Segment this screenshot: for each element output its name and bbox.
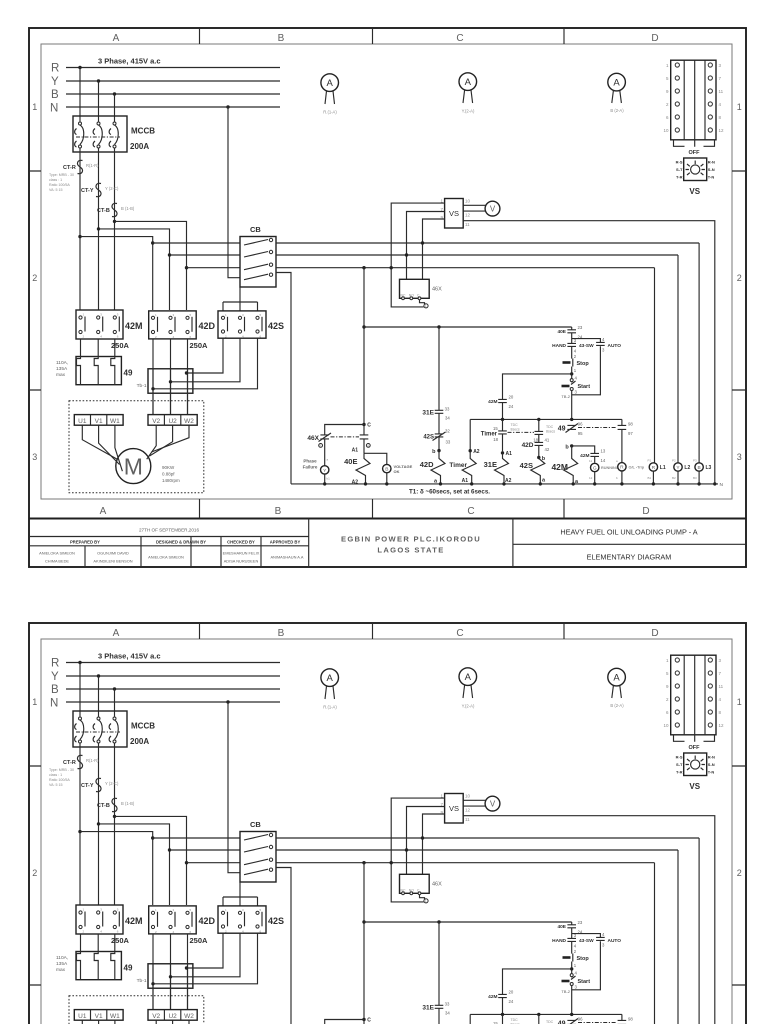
wire 31E chain drop: [438, 327, 440, 451]
wire control B drop: [363, 268, 365, 425]
svg-text:42M: 42M: [488, 399, 497, 405]
motor M: [116, 449, 151, 484]
wire main control vertical upper: [571, 327, 573, 419]
wire control top feed: [364, 326, 572, 328]
svg-text:M: M: [124, 454, 143, 480]
svg-text:40E: 40E: [344, 457, 357, 466]
wire mid rail: [470, 418, 622, 420]
svg-text:AKINDILENI BENSON: AKINDILENI BENSON: [93, 559, 132, 564]
46X bottom terminals: [402, 297, 405, 300]
svg-text:42S: 42S: [520, 461, 533, 470]
wire R phase drop: [79, 68, 81, 122]
svg-text:2: 2: [737, 273, 742, 283]
svg-text:EGBIN POWER PLC.IKORODU: EGBIN POWER PLC.IKORODU: [341, 535, 481, 544]
contact 46X NO: [360, 435, 369, 439]
wire 46X contact tops: [325, 425, 364, 435]
terminal block TB top right: [671, 60, 716, 140]
svg-text:31E: 31E: [484, 460, 497, 469]
svg-text:R: R: [620, 465, 624, 471]
svg-text:A: A: [613, 78, 620, 89]
TB pin numbers right: [719, 63, 725, 133]
contact 49 trip 96-95: [566, 424, 579, 433]
svg-text:1: 1: [425, 304, 427, 308]
wire B crossover to 42D: [115, 221, 187, 310]
node rail 31E: [501, 418, 504, 421]
page frame outer border: [29, 28, 746, 567]
node control feed on line3: [362, 266, 365, 269]
svg-text:Y.(2-A): Y.(2-A): [462, 109, 475, 114]
svg-text:97: 97: [628, 431, 633, 436]
terminal strip V2 U2 W2: [148, 415, 197, 426]
wire B below MCCB: [114, 148, 116, 310]
svg-text:S-N: S-N: [708, 167, 715, 172]
drawing area inner border: [41, 44, 732, 499]
wire B phase drop: [114, 94, 116, 122]
node TB1 a: [185, 371, 188, 374]
svg-text:A1: A1: [506, 451, 513, 457]
TB pin numbers left: [663, 63, 669, 133]
svg-text:V2: V2: [152, 418, 160, 425]
svg-text:13: 13: [601, 449, 606, 454]
svg-text:27TH OF SEPTEMBER,2016: 27TH OF SEPTEMBER,2016: [139, 528, 199, 533]
svg-text:11: 11: [589, 459, 592, 463]
node rail 42S: [537, 418, 540, 421]
ammeter A1: [321, 74, 339, 92]
svg-text:R.(1-A): R.(1-A): [323, 110, 337, 115]
lamp L2: [674, 463, 682, 471]
wire lamp feed drop B: [654, 268, 656, 463]
node CB feed Y: [168, 253, 171, 256]
terminal circle 4: [366, 444, 370, 448]
row margin ticks right: [732, 171, 746, 390]
wire 42D pole2 drop: [170, 339, 172, 415]
CB blade 3: [244, 264, 268, 270]
svg-text:23: 23: [578, 325, 583, 330]
svg-text:Y (2-C): Y (2-C): [105, 186, 119, 191]
svg-text:Phase: Phase: [303, 459, 317, 464]
svg-text:96: 96: [578, 422, 583, 427]
title block dividers: [309, 519, 513, 568]
svg-text:AUTO: AUTO: [608, 343, 622, 349]
svg-text:R: R: [51, 63, 59, 75]
svg-text:0.88pf: 0.88pf: [162, 472, 175, 477]
MCCB pole 1: [79, 122, 82, 125]
42D drops through TB-1: [153, 369, 188, 415]
contactor 42D box: [149, 311, 197, 339]
svg-text:ANIMASHAUN A.A: ANIMASHAUN A.A: [270, 555, 303, 560]
svg-text:3: 3: [737, 452, 742, 462]
svg-text:class : 1: class : 1: [49, 178, 62, 182]
svg-text:b1: b1: [327, 477, 331, 481]
wire 46X NC to lamp: [324, 439, 326, 466]
svg-text:3: 3: [32, 452, 37, 462]
svg-text:R-N: R-N: [708, 160, 715, 165]
svg-text:ANIELOKA SIMEON: ANIELOKA SIMEON: [39, 551, 75, 556]
CB output N to control drop: [276, 273, 291, 484]
svg-text:46X: 46X: [432, 287, 442, 293]
node pin7 on line2: [405, 253, 408, 256]
svg-text:max: max: [56, 373, 66, 378]
svg-text:L3: L3: [706, 465, 712, 471]
svg-text:ELEMENTARY DIAGRAM: ELEMENTARY DIAGRAM: [587, 553, 672, 562]
svg-text:12: 12: [719, 128, 725, 133]
svg-text:42S: 42S: [268, 321, 284, 331]
42S pole 2: [238, 316, 241, 319]
mechanical link 49: [578, 427, 616, 429]
svg-text:A1: A1: [462, 478, 469, 484]
node CB feed B: [185, 266, 188, 269]
svg-text:42S: 42S: [423, 435, 434, 441]
svg-text:49: 49: [124, 369, 133, 378]
svg-text:B: B: [278, 33, 285, 44]
svg-text:OGUNJIMI DAVID: OGUNJIMI DAVID: [97, 551, 129, 556]
svg-text:2: 2: [32, 273, 37, 283]
svg-text:250A: 250A: [111, 341, 130, 350]
node Y tap: [97, 79, 100, 82]
42D pole 1: [151, 316, 154, 319]
wire CB input 3: [187, 267, 241, 269]
svg-text:B2: B2: [672, 476, 676, 480]
svg-text:VS: VS: [449, 209, 459, 218]
svg-text:A: A: [100, 506, 107, 517]
42M pole 2: [97, 316, 100, 319]
svg-text:B1: B1: [648, 476, 652, 480]
svg-text:200A: 200A: [130, 142, 149, 151]
ammeter A2: [459, 73, 477, 91]
node A1 31E: [501, 451, 504, 454]
TB terminals left column: [675, 63, 679, 132]
svg-text:4: 4: [367, 444, 369, 448]
svg-text:C: C: [467, 506, 474, 517]
svg-text:T-R: T-R: [676, 175, 683, 180]
svg-text:10: 10: [465, 199, 471, 204]
svg-text:10: 10: [663, 128, 669, 133]
wire bottom N rail: [291, 483, 718, 485]
contact 42M aux 13-14: [572, 446, 595, 463]
CB output line 2: [276, 254, 678, 256]
contact HAND 43-SW: [567, 343, 576, 346]
wire lamp feed drop R: [698, 243, 700, 463]
svg-text:42M: 42M: [125, 321, 143, 331]
svg-text:W1: W1: [110, 418, 120, 425]
svg-text:8secs: 8secs: [511, 428, 520, 432]
node C: [362, 423, 365, 426]
42M pole 1: [79, 316, 82, 319]
node TB1 b: [169, 380, 172, 383]
wire CB input 1: [153, 242, 240, 244]
MCCB pole 2: [97, 122, 100, 125]
contactor 42M box: [76, 310, 123, 339]
lamp VOLTAGE OK: [383, 464, 391, 472]
motor lead V1: [99, 425, 120, 464]
svg-text:ANIELOKA SIMEON: ANIELOKA SIMEON: [148, 555, 184, 560]
svg-text:12: 12: [465, 213, 471, 218]
terminal circle 5: [319, 444, 323, 448]
mechanical link 46X: [331, 436, 360, 438]
svg-text:40E: 40E: [557, 329, 566, 335]
svg-text:90KW: 90KW: [162, 465, 175, 470]
svg-text:VA: 5 15: VA: 5 15: [49, 188, 63, 192]
42M pole 3: [113, 316, 116, 319]
svg-text:B (1-B): B (1-B): [121, 206, 135, 211]
svg-text:33: 33: [445, 407, 450, 412]
svg-text:41: 41: [545, 438, 550, 443]
svg-text:OFF: OFF: [689, 150, 701, 156]
svg-text:B: B: [51, 89, 59, 101]
42S pole 3: [256, 316, 259, 319]
svg-text:14: 14: [601, 458, 606, 463]
svg-text:TB-2: TB-2: [561, 394, 570, 399]
MCCB mechanical link: [76, 136, 120, 138]
svg-text:MCCB: MCCB: [131, 127, 155, 136]
bottom label band line: [29, 518, 746, 520]
svg-text:11: 11: [719, 89, 724, 94]
svg-text:31E: 31E: [422, 410, 434, 417]
svg-text:P3: P3: [693, 459, 697, 463]
wire 42D pole1 drop: [152, 339, 154, 415]
svg-text:CHIMA BEDE: CHIMA BEDE: [45, 559, 69, 564]
svg-text:V1: V1: [95, 418, 103, 425]
motor lead W2: [152, 425, 190, 452]
wire 42D pole3 drop: [187, 339, 189, 415]
node 31E chain tap: [437, 325, 440, 328]
svg-text:R-S: R-S: [676, 160, 683, 165]
svg-text:S-T: S-T: [676, 167, 683, 172]
contact 40E 23-24: [567, 330, 576, 333]
node seal junction: [570, 372, 573, 375]
pushbutton Stop: [563, 361, 571, 364]
svg-text:A2: A2: [352, 480, 359, 486]
42D pole 2: [169, 316, 172, 319]
wire CB bottom to 42S bus: [223, 287, 258, 311]
svg-text:CT-R: CT-R: [63, 165, 76, 171]
svg-text:L2: L2: [684, 465, 690, 471]
node B crossover: [113, 220, 116, 223]
motor lead V2: [147, 425, 157, 459]
svg-text:N: N: [720, 482, 724, 488]
svg-text:32: 32: [445, 429, 450, 434]
svg-text:T1: δ ~60secs, set at 6secs.: T1: δ ~60secs, set at 6secs.: [409, 489, 490, 496]
svg-text:A: A: [113, 33, 120, 44]
MCCB pole 3: [113, 122, 116, 125]
svg-text:Start: Start: [578, 384, 591, 390]
svg-text:A: A: [327, 78, 334, 89]
svg-text:TDC: TDC: [546, 425, 554, 429]
wire Y below MCCB: [98, 148, 100, 310]
wire timer coil branch: [469, 419, 471, 450]
svg-text:B: B: [697, 465, 700, 471]
wire CB input 2: [170, 254, 241, 256]
mechanical link timer: [508, 431, 535, 433]
wire 46X NO to 40E: [363, 439, 365, 453]
svg-text:OK: OK: [394, 469, 400, 474]
svg-text:Failure: Failure: [303, 465, 318, 470]
contact 49 trip 98-97: [618, 419, 627, 462]
svg-text:A2: A2: [505, 478, 512, 484]
svg-text:T-N: T-N: [708, 175, 715, 180]
svg-text:5: 5: [320, 444, 322, 448]
svg-text:135A: 135A: [56, 366, 68, 372]
svg-text:N: N: [50, 103, 58, 115]
wire R below MCCB: [79, 148, 81, 310]
svg-text:VS: VS: [689, 187, 700, 196]
svg-text:98: 98: [628, 422, 633, 427]
CB blade 4: [244, 274, 268, 280]
TB terminals right column: [708, 63, 712, 132]
node rail 42M: [570, 418, 573, 421]
svg-text:20: 20: [509, 395, 514, 400]
wire R crossover to 42D: [80, 237, 153, 310]
lamp O/L Trip: [618, 463, 626, 471]
svg-text:15: 15: [493, 426, 498, 431]
svg-text:B (2-A): B (2-A): [610, 108, 624, 113]
node Y crossover: [97, 227, 100, 230]
svg-text:Ratio 100/5A: Ratio 100/5A: [49, 183, 70, 187]
svg-text:CT-Y: CT-Y: [81, 188, 94, 194]
svg-text:EMESHARUN FELIX: EMESHARUN FELIX: [223, 551, 260, 556]
wire seal branch: [503, 374, 572, 420]
wire 42S pole1 to TB-1: [187, 338, 224, 373]
contact 42S NC 32-33: [433, 432, 446, 441]
svg-text:W2: W2: [184, 418, 194, 425]
svg-text:A2: A2: [473, 449, 480, 455]
svg-text:ADISA NURUDEEN: ADISA NURUDEEN: [224, 559, 259, 564]
title block header cells: [85, 537, 261, 568]
svg-text:G: G: [593, 465, 597, 471]
motor lead W1: [115, 425, 123, 471]
CB blade 1: [244, 240, 268, 246]
node N tap: [226, 105, 229, 108]
svg-text:C: C: [367, 423, 371, 429]
svg-text:HAND: HAND: [552, 343, 566, 349]
svg-text:C: C: [456, 33, 463, 44]
wire 42S pole2 to TB-1: [171, 338, 241, 382]
svg-text:D: D: [642, 506, 649, 517]
relay 46X box: [400, 279, 430, 298]
svg-text:LAGOS STATE: LAGOS STATE: [377, 546, 444, 555]
node B tap: [113, 92, 116, 95]
contact AUTO branch: [572, 339, 601, 395]
svg-text:1480rpm: 1480rpm: [162, 478, 180, 483]
svg-text:33: 33: [446, 440, 451, 445]
svg-text:L1: L1: [660, 465, 666, 471]
motor terminal box dotted: [69, 401, 204, 493]
motor lead U2: [150, 425, 173, 456]
svg-text:8secs: 8secs: [546, 430, 555, 434]
svg-text:P2: P2: [672, 459, 676, 463]
svg-text:3 Phase, 415V a.c: 3 Phase, 415V a.c: [98, 57, 161, 66]
svg-text:U2: U2: [168, 418, 177, 425]
node b 42M: [570, 444, 573, 447]
svg-text:24: 24: [509, 404, 514, 409]
terminal strip U1 V1 W1: [74, 415, 123, 426]
TB bottom hooks: [674, 140, 715, 147]
49 element 3: [111, 339, 115, 385]
pushbutton Start: [570, 379, 573, 382]
overload relay 49 box: [76, 357, 121, 385]
svg-text:43-SW: 43-SW: [579, 343, 594, 349]
svg-text:42D: 42D: [199, 321, 216, 331]
svg-text:1: 1: [32, 102, 37, 112]
node CB feed R: [151, 241, 154, 244]
contact TDC 42D chain: [538, 419, 540, 457]
node feed branch: [362, 325, 365, 328]
svg-text:HEAVY FUEL OIL UNLOADING PUMP: HEAVY FUEL OIL UNLOADING PUMP - A: [560, 528, 697, 537]
42D pole 3: [186, 316, 189, 319]
node R crossover: [78, 235, 81, 238]
lamp L3: [695, 463, 703, 471]
node A2 timer: [469, 449, 472, 452]
contact 31E 33-34: [435, 410, 444, 413]
node b 42S: [537, 456, 540, 459]
svg-text:12: 12: [589, 476, 593, 480]
46X output terminal: [424, 304, 428, 308]
svg-text:110A,: 110A,: [56, 360, 68, 366]
svg-text:A: A: [465, 77, 472, 88]
svg-text:42D: 42D: [420, 460, 434, 469]
contact 42M 20-24 seal: [498, 399, 507, 402]
svg-text:V: V: [490, 205, 496, 214]
svg-text:A1: A1: [352, 448, 359, 454]
voltmeter selector VS box: [445, 199, 464, 229]
node R tap: [78, 66, 81, 69]
contactor 42S box: [218, 311, 266, 338]
svg-text:Stop: Stop: [577, 361, 590, 367]
svg-text:42: 42: [545, 447, 550, 452]
CB blade 2: [244, 252, 268, 258]
svg-text:CT-B: CT-B: [97, 208, 110, 214]
svg-text:CHECKED BY: CHECKED BY: [227, 539, 255, 544]
CB output line 3: [276, 267, 655, 269]
contact 42D NC 41-42: [535, 442, 544, 445]
svg-text:42D: 42D: [522, 442, 534, 449]
lamp RUNNING: [591, 463, 599, 471]
svg-text:46X: 46X: [307, 435, 319, 442]
node pin1 on line3: [390, 266, 393, 269]
svg-text:R(1-R): R(1-R): [86, 163, 99, 168]
svg-text:Timer: Timer: [449, 462, 467, 469]
node TB1 c: [151, 387, 154, 390]
svg-text:Tb-1: Tb-1: [137, 383, 147, 389]
49 element 2: [94, 339, 98, 385]
VS pin 11 wire to N riser: [463, 221, 715, 484]
svg-text:34: 34: [445, 416, 450, 421]
svg-text:49: 49: [558, 426, 566, 433]
svg-text:CB: CB: [250, 225, 261, 234]
46X C pin wire: [420, 300, 425, 305]
svg-text:1: 1: [737, 102, 742, 112]
svg-text:250A: 250A: [190, 341, 209, 350]
wire VOLTAGE OK branch: [364, 453, 387, 464]
wire Y phase drop: [98, 81, 100, 122]
wire lamp feed drop Y: [677, 255, 679, 463]
column header ticks top: [200, 28, 565, 44]
svg-text:11: 11: [465, 222, 470, 227]
ammeter A3: [608, 73, 626, 91]
svg-text:B3: B3: [693, 476, 697, 480]
svg-text:TDC: TDC: [511, 423, 519, 427]
svg-text:18: 18: [533, 438, 538, 443]
row margin ticks left: [29, 171, 41, 390]
svg-text:18: 18: [493, 437, 498, 442]
breaker MCCB box: [73, 116, 127, 152]
wire 42S pole3 to TB-1: [153, 338, 258, 389]
rail junction dots: [323, 482, 717, 485]
svg-text:95: 95: [578, 431, 583, 436]
svg-text:B: B: [385, 467, 388, 473]
svg-text:U1: U1: [78, 418, 87, 425]
svg-text:D: D: [651, 33, 658, 44]
